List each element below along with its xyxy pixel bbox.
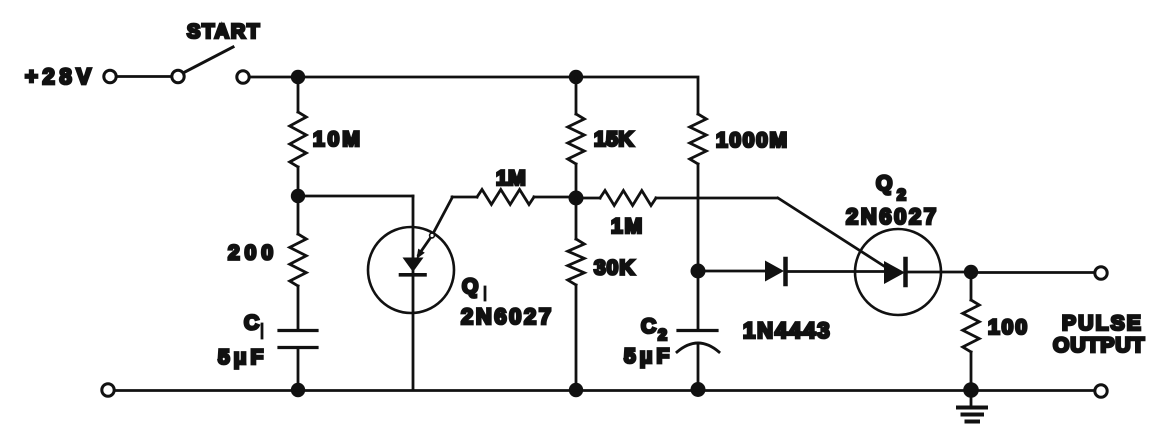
capacitor C2 curved plate [677,343,719,352]
capacitor C1 bottom plate [279,346,317,349]
wire Q1 anode-cathode column [412,196,415,390]
node D junction Q2/100/output [964,265,978,279]
wire Q1 gate to 1M [452,196,477,199]
transistor Q1 gate arrowhead [417,249,425,259]
transistor Q1 gate lead [419,197,453,255]
node C junction 1000M/diode/C2 [691,264,706,279]
wire 100 to bottom rail [970,352,973,390]
wire 15K column [575,77,578,114]
capacitor C2 top plate [678,329,717,332]
svg-text:5μF: 5μF [624,345,673,368]
wire node B to 30K [575,198,578,239]
capacitor C1 top plate [279,329,317,332]
transistor Q1 PUT triangle [403,258,424,273]
resistor 1M (right) [600,191,656,206]
junction top rail / 15K [569,70,583,84]
switch START pole contact [172,70,184,82]
transistor Q2 gate lead diagonal [778,198,887,268]
svg-text:10M: 10M [313,128,363,151]
wire node D to 100 [970,272,973,300]
node B junction 15K/1M/1M/30K [569,191,584,206]
svg-text:+28V: +28V [25,64,96,89]
svg-text:PULSE: PULSE [1062,312,1143,335]
svg-text:C: C [641,315,656,338]
junction bottom rail / C1 [291,383,305,397]
svg-text:5μF: 5μF [218,346,267,369]
wire C1 to bottom rail [297,348,300,391]
ground bar 2 [963,413,983,417]
diode 1N4443 triangle [765,261,784,282]
junction bottom rail / C2 [691,382,706,397]
resistor 1000M [690,114,707,164]
wire top rail from switch to 1000M corner [250,77,699,114]
svg-text:100: 100 [988,316,1029,339]
ground bar 1 [958,406,986,410]
wire rail to 10M [297,77,300,112]
transistor Q1 cathode bar [401,273,426,277]
wire 15K to node B [575,164,578,198]
resistor 30K [568,239,585,285]
svg-text:2N6027: 2N6027 [846,204,939,229]
transistor Q2 cathode bar [903,259,908,285]
wire 10M to node A [297,167,300,196]
wire C2 top lead [697,271,700,331]
svg-text:1M: 1M [611,215,644,238]
junction bottom rail / 30K [569,383,583,397]
node A junction 10M/200/Q1 anode [291,189,305,203]
ground stem [970,390,973,406]
resistor 200 [290,234,307,286]
terminal pulse output [1095,267,1107,279]
wire 1M to Q2 gate bend [656,197,777,200]
switch START blade [184,47,233,73]
svg-text:2: 2 [897,187,906,204]
wire C2 to bottom rail [697,345,700,389]
wire node A to 200 [297,196,300,234]
transistor Q2 circle [855,229,941,315]
svg-text:OUTPUT: OUTPUT [1053,334,1145,357]
ground bar 3 [967,420,979,424]
wire node C to diode [698,270,765,273]
wire diode to Q2 [787,270,884,273]
svg-text:1000M: 1000M [716,129,789,152]
wire Q2 cathode to output node [907,271,971,274]
resistor 100 [963,300,980,352]
wire node B to 1M (right) [583,197,600,200]
resistor 1M (left) [477,190,534,205]
transistor Q2 PUT triangle [884,261,905,284]
resistor 15K [568,114,585,164]
svg-text:1M: 1M [496,167,526,190]
svg-text:15K: 15K [594,128,634,151]
svg-text:2: 2 [658,327,667,344]
svg-text:200: 200 [228,242,278,265]
junction bottom rail / ground [963,382,979,398]
wire +28V terminal to switch pole [117,75,172,78]
terminal +28V input [104,70,116,82]
wire 1M to node B [534,196,576,199]
resistor 10M [290,112,307,167]
svg-text:Q: Q [876,172,892,195]
switch START throw contact [237,71,249,83]
wire 30K to bottom rail [575,285,578,390]
wire output node to terminal [971,271,1094,274]
terminal bottom left [102,384,114,396]
svg-text:C: C [244,312,259,335]
svg-text:2N6027: 2N6027 [461,304,554,329]
junction top rail / 10M [291,70,305,84]
svg-text:30K: 30K [594,257,636,280]
svg-text:1N4443: 1N4443 [743,318,831,343]
wire 1000M to node C [697,164,700,271]
wire bottom rail [115,389,1095,392]
diode 1N4443 cathode bar [783,259,788,284]
svg-text:Q: Q [462,275,478,298]
wire 200 to C1 [297,286,300,331]
transistor Q1 gate crossing dot [430,233,435,238]
terminal bottom right [1095,385,1107,397]
svg-text:START: START [187,21,261,43]
wire node A to Q1 anode column [298,195,413,198]
transistor Q1 circle [368,227,454,313]
